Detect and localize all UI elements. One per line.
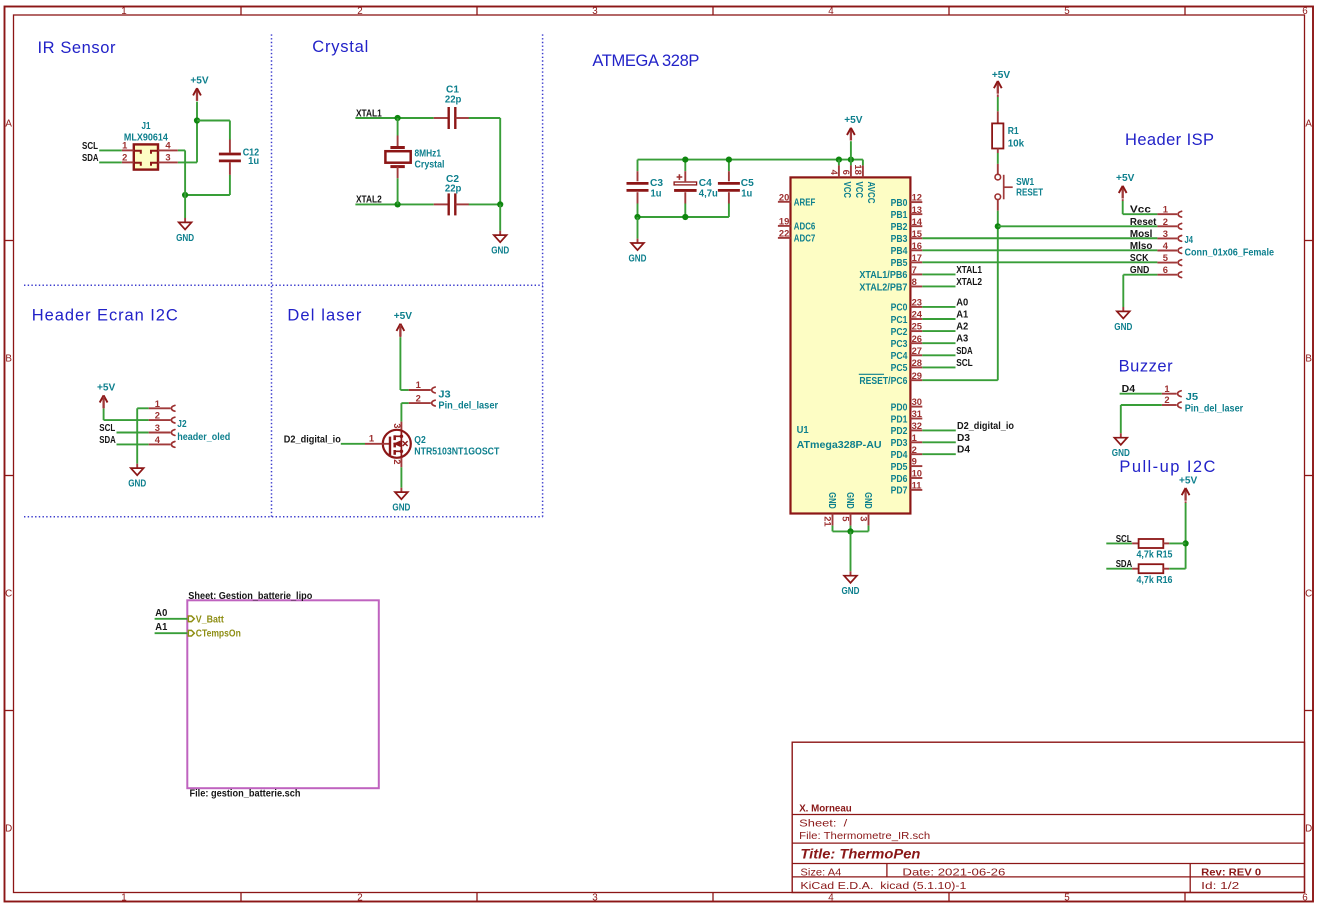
svg-text:14: 14 <box>912 216 923 227</box>
svg-text:22p: 22p <box>445 94 462 106</box>
svg-text:3: 3 <box>592 893 598 904</box>
svg-text:D: D <box>1305 824 1312 835</box>
svg-text:GND: GND <box>491 245 509 257</box>
svg-text:D3: D3 <box>957 432 970 444</box>
svg-text:Reset: Reset <box>1130 216 1157 228</box>
svg-text:3: 3 <box>155 422 160 433</box>
svg-text:PB0: PB0 <box>891 198 908 209</box>
svg-text:5: 5 <box>1064 893 1070 904</box>
svg-text:1: 1 <box>912 432 917 443</box>
svg-text:3: 3 <box>592 6 598 17</box>
svg-text:1: 1 <box>155 398 160 409</box>
svg-text:File: gestion_batterie.sch: File: gestion_batterie.sch <box>190 788 301 800</box>
svg-text:Q2: Q2 <box>414 434 426 446</box>
svg-text:Sheet: /: Sheet: / <box>799 817 847 829</box>
svg-text:Mosl: Mosl <box>1130 228 1153 240</box>
svg-text:Mlso: Mlso <box>1130 240 1153 252</box>
svg-text:1u: 1u <box>741 187 752 199</box>
svg-text:1: 1 <box>1163 204 1168 215</box>
svg-text:PB2: PB2 <box>891 222 908 233</box>
svg-text:31: 31 <box>912 408 922 419</box>
svg-text:4,7k R16: 4,7k R16 <box>1137 574 1173 586</box>
svg-text:header_oled: header_oled <box>177 431 230 443</box>
svg-text:AVCC: AVCC <box>865 182 876 204</box>
svg-text:17: 17 <box>912 252 922 263</box>
svg-text:1: 1 <box>416 379 421 390</box>
svg-text:SCK: SCK <box>1130 252 1149 264</box>
svg-text:CTempsOn: CTempsOn <box>196 628 241 640</box>
svg-text:18: 18 <box>853 164 864 174</box>
svg-text:VCC: VCC <box>841 182 852 199</box>
svg-text:PC3: PC3 <box>891 339 908 350</box>
svg-text:ATMEGA 328P: ATMEGA 328P <box>592 52 699 70</box>
svg-text:J1: J1 <box>142 120 151 132</box>
svg-text:Buzzer: Buzzer <box>1119 358 1174 376</box>
svg-text:Vcc: Vcc <box>1130 204 1151 216</box>
svg-text:D2_digital_io: D2_digital_io <box>284 433 341 445</box>
svg-text:5: 5 <box>841 516 852 521</box>
svg-text:GND: GND <box>1114 321 1132 333</box>
svg-text:22: 22 <box>779 228 789 239</box>
svg-text:+5V: +5V <box>190 75 208 87</box>
svg-text:A0: A0 <box>155 607 167 619</box>
svg-text:PC2: PC2 <box>891 327 908 338</box>
svg-text:Title: ThermoPen: Title: ThermoPen <box>800 846 920 861</box>
svg-text:GND: GND <box>842 585 860 597</box>
svg-text:R1: R1 <box>1008 125 1019 137</box>
svg-text:4: 4 <box>828 6 834 17</box>
svg-text:A0: A0 <box>956 296 968 308</box>
svg-text:1u: 1u <box>651 187 662 199</box>
svg-text:ATmega328P-AU: ATmega328P-AU <box>797 439 882 451</box>
svg-text:6: 6 <box>1163 264 1168 275</box>
svg-text:X. Morneau: X. Morneau <box>799 802 852 814</box>
svg-text:1: 1 <box>121 6 126 17</box>
svg-text:Id: 1/2: Id: 1/2 <box>1201 880 1239 892</box>
svg-text:D: D <box>5 824 12 835</box>
svg-text:2: 2 <box>1163 216 1168 227</box>
svg-text:4,7u: 4,7u <box>699 187 718 199</box>
svg-text:9: 9 <box>912 456 917 467</box>
svg-text:1: 1 <box>369 433 374 444</box>
svg-text:SDA: SDA <box>99 434 116 446</box>
svg-text:2: 2 <box>357 6 362 17</box>
svg-text:+5V: +5V <box>844 114 862 126</box>
svg-text:5: 5 <box>1163 252 1168 263</box>
svg-text:26: 26 <box>912 333 922 344</box>
svg-text:GND: GND <box>176 232 194 244</box>
svg-text:ADC6: ADC6 <box>794 222 816 233</box>
svg-text:+5V: +5V <box>1179 474 1197 486</box>
svg-text:PD7: PD7 <box>891 486 908 497</box>
svg-text:5: 5 <box>1064 6 1070 17</box>
svg-text:24: 24 <box>912 309 923 320</box>
svg-text:D4: D4 <box>957 444 970 456</box>
svg-text:2: 2 <box>1164 394 1169 405</box>
svg-text:21: 21 <box>823 516 834 526</box>
svg-text:+5V: +5V <box>394 310 412 322</box>
svg-text:SCL: SCL <box>99 422 115 434</box>
svg-text:GND: GND <box>392 502 410 514</box>
svg-text:D2_digital_io: D2_digital_io <box>957 420 1014 432</box>
svg-text:22p: 22p <box>445 183 462 195</box>
svg-text:GND: GND <box>629 252 647 264</box>
svg-text:1: 1 <box>1164 383 1169 394</box>
svg-text:4: 4 <box>1163 240 1169 251</box>
svg-text:1: 1 <box>121 893 126 904</box>
svg-text:4: 4 <box>828 893 834 904</box>
svg-text:PC0: PC0 <box>891 303 908 314</box>
svg-text:1u: 1u <box>248 155 259 167</box>
svg-text:2: 2 <box>155 410 160 421</box>
svg-text:GND: GND <box>128 478 146 490</box>
svg-text:Pin_del_laser: Pin_del_laser <box>1185 403 1244 415</box>
svg-text:PD1: PD1 <box>891 414 908 425</box>
svg-text:Pull-up I2C: Pull-up I2C <box>1119 458 1215 476</box>
svg-text:4,7k R15: 4,7k R15 <box>1137 549 1173 561</box>
svg-text:A: A <box>1305 119 1312 130</box>
svg-text:Date: 2021-06-26: Date: 2021-06-26 <box>902 867 1005 879</box>
svg-text:Rev: REV 0: Rev: REV 0 <box>1201 867 1261 879</box>
svg-text:KiCad E.D.A. kicad (5.1.10)-1: KiCad E.D.A. kicad (5.1.10)-1 <box>800 880 966 892</box>
svg-text:27: 27 <box>912 345 922 356</box>
svg-text:4: 4 <box>155 434 161 445</box>
svg-text:+5V: +5V <box>97 382 115 394</box>
svg-text:SCL: SCL <box>956 357 973 369</box>
svg-text:A3: A3 <box>956 333 968 345</box>
svg-text:XTAL1/PB6: XTAL1/PB6 <box>859 270 907 281</box>
svg-text:3: 3 <box>392 423 403 428</box>
svg-text:+5V: +5V <box>1116 172 1134 184</box>
svg-text:23: 23 <box>912 297 922 308</box>
svg-text:15: 15 <box>912 228 922 239</box>
svg-text:GND: GND <box>844 492 855 509</box>
svg-text:A2: A2 <box>956 321 968 333</box>
svg-text:AREF: AREF <box>794 198 816 209</box>
svg-text:J5: J5 <box>1186 391 1199 403</box>
svg-text:+5V: +5V <box>992 69 1010 81</box>
svg-text:12: 12 <box>912 192 922 203</box>
svg-text:NTR5103NT1GOSCT: NTR5103NT1GOSCT <box>414 445 499 457</box>
svg-text:19: 19 <box>779 216 789 227</box>
svg-text:8: 8 <box>912 276 917 287</box>
svg-text:6: 6 <box>841 170 852 175</box>
svg-text:U1: U1 <box>797 424 809 436</box>
svg-text:PD4: PD4 <box>891 450 908 461</box>
svg-text:C: C <box>1305 589 1312 600</box>
svg-text:SDA: SDA <box>82 152 99 164</box>
svg-text:3: 3 <box>1163 228 1168 239</box>
svg-text:PD2: PD2 <box>891 426 908 437</box>
svg-text:XTAL1: XTAL1 <box>956 264 982 276</box>
svg-text:11: 11 <box>912 480 922 491</box>
svg-text:MLX90614: MLX90614 <box>124 131 168 143</box>
svg-text:32: 32 <box>912 420 922 431</box>
svg-text:Del laser: Del laser <box>287 307 362 325</box>
svg-text:10: 10 <box>912 468 922 479</box>
svg-text:PC5: PC5 <box>891 363 908 374</box>
svg-text:13: 13 <box>912 204 922 215</box>
svg-text:PC4: PC4 <box>891 351 908 362</box>
svg-text:4: 4 <box>829 170 840 176</box>
svg-text:Conn_01x06_Female: Conn_01x06_Female <box>1185 247 1275 259</box>
svg-text:B: B <box>5 354 12 365</box>
svg-text:A1: A1 <box>155 621 167 633</box>
svg-text:Header ISP: Header ISP <box>1125 131 1214 149</box>
svg-text:RESET: RESET <box>1016 187 1043 199</box>
svg-text:V_Batt: V_Batt <box>196 613 224 625</box>
svg-text:PD3: PD3 <box>891 438 908 449</box>
svg-text:GND: GND <box>862 492 873 509</box>
svg-text:PB1: PB1 <box>891 210 908 221</box>
svg-text:2: 2 <box>416 392 421 403</box>
svg-text:A1: A1 <box>956 309 968 321</box>
svg-text:A: A <box>5 119 12 130</box>
svg-text:ADC7: ADC7 <box>794 234 816 245</box>
svg-text:28: 28 <box>912 357 922 368</box>
svg-text:PB3: PB3 <box>891 234 908 245</box>
svg-text:10k: 10k <box>1008 137 1025 149</box>
svg-text:B: B <box>1305 354 1312 365</box>
svg-text:Crystal: Crystal <box>415 158 445 170</box>
svg-text:RESET/PC6: RESET/PC6 <box>859 376 907 387</box>
svg-text:30: 30 <box>912 396 922 407</box>
svg-text:Sheet: Gestion_batterie_lipo: Sheet: Gestion_batterie_lipo <box>188 590 312 602</box>
svg-text:20: 20 <box>779 191 789 202</box>
svg-text:6: 6 <box>1302 6 1308 17</box>
svg-text:Crystal: Crystal <box>312 38 368 56</box>
svg-text:XTAL2/PB7: XTAL2/PB7 <box>859 282 907 293</box>
svg-text:2: 2 <box>912 444 917 455</box>
svg-text:PD6: PD6 <box>891 474 908 485</box>
svg-text:J2: J2 <box>177 418 186 430</box>
svg-text:29: 29 <box>912 370 922 381</box>
svg-text:Header Ecran I2C: Header Ecran I2C <box>32 307 178 325</box>
svg-text:PC1: PC1 <box>891 315 908 326</box>
svg-text:Pin_del_laser: Pin_del_laser <box>438 399 498 411</box>
svg-text:Size: A4: Size: A4 <box>800 867 841 879</box>
svg-text:25: 25 <box>912 321 922 332</box>
svg-text:3: 3 <box>165 152 170 163</box>
svg-text:IR Sensor: IR Sensor <box>38 39 117 57</box>
svg-text:PB4: PB4 <box>891 246 908 257</box>
svg-text:2: 2 <box>122 152 127 163</box>
svg-text:XTAL2: XTAL2 <box>956 276 982 288</box>
svg-text:VCC: VCC <box>853 182 864 199</box>
svg-text:GND: GND <box>1112 447 1130 459</box>
svg-text:PB5: PB5 <box>891 258 908 269</box>
svg-text:File: Thermometre_IR.sch: File: Thermometre_IR.sch <box>799 830 930 842</box>
svg-text:SCL: SCL <box>82 140 98 152</box>
svg-text:PD5: PD5 <box>891 462 908 473</box>
svg-text:J4: J4 <box>1185 234 1194 246</box>
svg-text:PD0: PD0 <box>891 402 908 413</box>
svg-text:3: 3 <box>859 516 870 521</box>
svg-text:7: 7 <box>912 264 917 275</box>
svg-text:C: C <box>5 589 12 600</box>
svg-text:16: 16 <box>912 240 922 251</box>
svg-text:SDA: SDA <box>956 345 973 357</box>
svg-text:2: 2 <box>357 893 362 904</box>
svg-text:GND: GND <box>826 492 837 509</box>
svg-text:6: 6 <box>1302 893 1308 904</box>
